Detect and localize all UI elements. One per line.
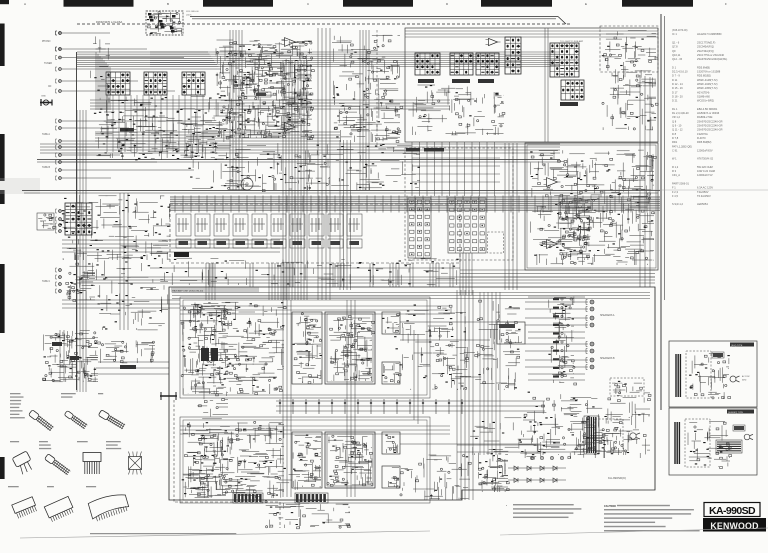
svg-text:2SC945A(P,Q): 2SC945A(P,Q) bbox=[697, 45, 714, 49]
svg-text:D 7,8: D 7,8 bbox=[672, 136, 679, 140]
volume control block bbox=[505, 37, 521, 74]
AC plug bbox=[630, 433, 636, 439]
input selector switch S1-1 bbox=[106, 72, 130, 95]
vertical bundle x360 bbox=[360, 30, 369, 190]
bias resistor rails bbox=[276, 401, 470, 411]
relay contact column bbox=[553, 305, 574, 382]
tone switch matrix 3 bbox=[476, 53, 499, 75]
svg-text:MAIN AMP UNIT (X08-1090-00): MAIN AMP UNIT (X08-1090-00) bbox=[172, 290, 203, 293]
sub sonic circuit bbox=[605, 49, 653, 129]
source direct matrix 1 bbox=[408, 198, 431, 258]
svg-text:(24V): (24V) bbox=[186, 15, 192, 17]
amp top horizontals bbox=[172, 293, 650, 299]
filter cell C2 bbox=[195, 214, 210, 236]
speaker terminals A bbox=[590, 300, 594, 327]
svg-text:KA-990SD(K): KA-990SD(K) bbox=[608, 476, 626, 480]
power rail horizontals 2 bbox=[470, 401, 545, 411]
op-amp IC1-2 bbox=[285, 123, 296, 132]
amp dashed left border bbox=[173, 400, 175, 502]
phono eq extra wiring bbox=[95, 113, 235, 161]
main amp label strip bbox=[171, 288, 259, 293]
board outline horizontal y161 bbox=[37, 159, 560, 161]
vertical trunk C bbox=[340, 140, 351, 290]
adaptor switch matrix bbox=[65, 203, 92, 235]
label uPC1225H bbox=[8, 486, 19, 487]
svg-text:S 9,R-1,2: S 9,R-1,2 bbox=[672, 202, 684, 206]
svg-text:RL 1: RL 1 bbox=[672, 107, 678, 111]
svg-text:VR 1,2: VR 1,2 bbox=[672, 115, 680, 119]
svg-text:F 1: F 1 bbox=[672, 186, 676, 190]
svg-text:Q 11 - 12: Q 11 - 12 bbox=[672, 128, 683, 132]
power circuit box SLK type bbox=[669, 341, 757, 407]
signal bus trunk right bbox=[150, 52, 560, 67]
left scan bar 2 bbox=[0, 134, 5, 181]
dense junction box (power switch detail) bbox=[146, 11, 183, 35]
svg-text:(SLB/JET) TYPE: (SLB/JET) TYPE bbox=[728, 412, 744, 414]
board outline horizontal y191 bbox=[22, 190, 660, 192]
inner amp long rails bbox=[180, 306, 450, 434]
svg-text:W02F-4148(T-72): W02F-4148(T-72) bbox=[697, 78, 718, 82]
package flat 2SA1349 bbox=[12, 451, 35, 475]
svg-text:RD5.6E(B2): RD5.6E(B2) bbox=[697, 74, 711, 78]
power supply dashed box bbox=[595, 419, 623, 451]
label 2SA1115 2SC2668 bbox=[61, 393, 76, 394]
drop bundles to amp bbox=[335, 263, 439, 287]
mid-left vertical bundle bbox=[120, 193, 128, 330]
svg-text:2SA970/2SC2240-GR: 2SA970/2SC2240-GR bbox=[697, 119, 723, 123]
svg-text:R 3: R 3 bbox=[672, 169, 677, 173]
SLB plug bbox=[744, 434, 750, 440]
speaker wires bbox=[525, 302, 588, 367]
filter cell C4 bbox=[233, 214, 248, 236]
label direct bbox=[452, 79, 470, 83]
filter cell C6 bbox=[271, 214, 286, 236]
speaker switch resistor row bbox=[106, 342, 137, 363]
svg-text:F: F bbox=[725, 2, 727, 6]
preamp board outline top edge bbox=[190, 17, 566, 25]
tape C jacks bbox=[59, 269, 62, 293]
svg-text:D 21: D 21 bbox=[672, 99, 678, 103]
svg-text:D 11: D 11 bbox=[672, 78, 678, 82]
svg-text:60Hz: 60Hz bbox=[742, 380, 746, 382]
power circuit box SLB type bbox=[669, 408, 757, 475]
filter drop pairs bbox=[210, 263, 453, 287]
svg-text:Q 8: Q 8 bbox=[672, 119, 677, 123]
SLK transformer bbox=[676, 354, 680, 397]
svg-text:RD5.6M(B2): RD5.6M(B2) bbox=[697, 140, 712, 144]
label TA7205 bbox=[47, 486, 54, 487]
amp nested borders R bbox=[180, 417, 430, 503]
SLB power switch bbox=[733, 425, 745, 431]
svg-text:1S2076A or 1S1588: 1S2076A or 1S1588 bbox=[697, 70, 721, 74]
page bottom faint line bbox=[20, 531, 430, 538]
svg-text:R 1,2: R 1,2 bbox=[672, 165, 679, 169]
svg-text:(SLK) TYPE: (SLK) TYPE bbox=[731, 345, 743, 347]
label loudness bbox=[560, 102, 578, 106]
svg-text:2SC1775A(E,F): 2SC1775A(E,F) bbox=[697, 41, 715, 45]
filter bus taps bbox=[175, 196, 647, 213]
package DIP top view bbox=[129, 452, 142, 475]
midband wiring bbox=[181, 143, 421, 190]
tone vertical pair bbox=[545, 28, 548, 142]
power supply vertical rails bbox=[457, 290, 473, 500]
protector relay box bbox=[497, 322, 525, 344]
svg-text:A: A bbox=[24, 2, 26, 6]
board outline left vertical bbox=[76, 52, 78, 390]
film registration bar 5 bbox=[622, 0, 693, 7]
svg-text:KA-990SD: KA-990SD bbox=[709, 505, 756, 517]
dashed boundary bbox=[376, 30, 378, 145]
adaptor jacks bbox=[59, 210, 62, 233]
left scan bar 5 bbox=[0, 457, 5, 479]
SLK power switch bbox=[712, 352, 724, 358]
tone op-amp bbox=[489, 38, 498, 45]
svg-text:2SC1775A or 2SC2240: 2SC1775A or 2SC2240 bbox=[697, 53, 725, 57]
protection circuit column bbox=[197, 305, 229, 487]
left scan bar 3 bbox=[0, 190, 5, 204]
model number box KA-990SD bbox=[704, 503, 760, 517]
parts list divider line bbox=[600, 189, 768, 191]
adaptor components bbox=[37, 213, 54, 230]
filter capacitor bank bbox=[485, 461, 487, 463]
KENWOOD logo box bbox=[703, 518, 766, 532]
label tone bbox=[478, 79, 494, 83]
label UPA68H bbox=[77, 441, 88, 442]
cd input jacks bbox=[59, 80, 62, 93]
svg-text:C91_A: C91_A bbox=[672, 173, 680, 177]
phones label bbox=[120, 365, 136, 369]
power transformer T1 bbox=[587, 417, 596, 453]
tape C switch cluster bbox=[80, 292, 82, 294]
R-channel driver module bbox=[325, 432, 375, 488]
svg-text:D 17: D 17 bbox=[672, 90, 678, 94]
mid-left extra wiring bbox=[60, 195, 170, 258]
svg-text:TO L-9062 TO SUB AMP: TO L-9062 TO SUB AMP bbox=[560, 40, 584, 43]
package module uPC1225H bbox=[12, 497, 38, 519]
tape B jacks bbox=[59, 154, 62, 180]
tone circuit clutter bbox=[456, 113, 459, 115]
flat amplifier board outline bbox=[525, 143, 658, 270]
filter cell C9 bbox=[328, 214, 343, 236]
label 2SA1349 bbox=[10, 441, 19, 442]
label TA2646 bbox=[86, 486, 96, 487]
wire dashed bus to power switch bbox=[77, 23, 570, 25]
svg-text:Q9: Q9 bbox=[672, 49, 676, 53]
bottom small text bbox=[90, 533, 236, 534]
phono input jacks bbox=[59, 32, 62, 51]
amp center vertical bundle bbox=[283, 300, 355, 497]
bottom center extra circuitry bbox=[269, 503, 350, 517]
package TO-92 2SB726 bbox=[98, 410, 125, 430]
phono equalizer amplifier section bbox=[217, 49, 312, 101]
filter cell C1 bbox=[176, 214, 191, 236]
svg-text:W 1: W 1 bbox=[672, 157, 677, 161]
film registration bar 1 bbox=[64, 0, 134, 7]
svg-text:Q7,8: Q7,8 bbox=[672, 45, 678, 49]
svg-text:RL 2,3,4,RL20: RL 2,3,4,RL20 bbox=[672, 111, 689, 115]
SLB dashed box bbox=[685, 419, 710, 467]
svg-text:PHONO: PHONO bbox=[42, 41, 51, 43]
ground post GND bbox=[40, 102, 52, 104]
svg-text:2SA733A(P,Q): 2SA733A(P,Q) bbox=[697, 49, 714, 53]
svg-text:2SA970/2SC2240(GR,BL): 2SA970/2SC2240(GR,BL) bbox=[697, 57, 727, 61]
signal bus horizontal group bbox=[77, 52, 219, 67]
dashed sub box top-right bbox=[600, 26, 658, 72]
svg-text:TAPE B: TAPE B bbox=[42, 166, 50, 169]
labels tone mode bbox=[406, 148, 420, 152]
vertical bundle x230 bbox=[230, 30, 242, 190]
svg-text:PAT-L1,2(B2-QE): PAT-L1,2(B2-QE) bbox=[672, 144, 692, 148]
rec out horizontal bundle bbox=[40, 144, 560, 153]
SLK dashed box bbox=[686, 351, 711, 398]
svg-text:E: E bbox=[585, 2, 587, 6]
vertical ladder tone to band bbox=[412, 142, 495, 196]
muting circuit section bbox=[358, 59, 378, 117]
svg-text:D 12 - 14: D 12 - 14 bbox=[672, 82, 683, 86]
main board outline right edge bbox=[660, 14, 662, 410]
amp nested borders L bbox=[180, 297, 430, 398]
label mode bbox=[418, 79, 434, 83]
svg-text:(X08-1070-00): (X08-1070-00) bbox=[672, 29, 688, 32]
svg-text:HZ-6(TD4): HZ-6(TD4) bbox=[697, 90, 710, 94]
svg-text:W02F-1046(T-72): W02F-1046(T-72) bbox=[697, 82, 718, 86]
vertical signal trunk center bbox=[283, 60, 307, 300]
recording selector label bbox=[120, 128, 134, 132]
svg-text:D 15 - 16: D 15 - 16 bbox=[672, 86, 683, 90]
svg-text:RD5.6M(B): RD5.6M(B) bbox=[697, 65, 710, 69]
R-channel input stage bbox=[191, 466, 281, 498]
svg-text:SPEAKERS B: SPEAKERS B bbox=[600, 357, 615, 360]
connector strip 2 bbox=[296, 494, 299, 502]
label RD5602F group bbox=[106, 441, 121, 442]
drop wires to main amp left bbox=[206, 263, 287, 300]
package TO-92 2SA1115 bbox=[64, 410, 88, 429]
IC label box bbox=[255, 92, 271, 97]
svg-text:GND: GND bbox=[41, 96, 46, 98]
L-channel driver module bbox=[325, 312, 375, 384]
svg-text:12000uF/71V: 12000uF/71V bbox=[697, 173, 713, 177]
R-channel output transistors bbox=[382, 432, 400, 454]
fuse row bbox=[530, 456, 563, 459]
source direct matrix 2 bbox=[448, 198, 486, 253]
svg-text:B: B bbox=[167, 2, 169, 6]
filter lower wiring bbox=[174, 259, 459, 284]
svg-text:AC 120V: AC 120V bbox=[742, 375, 750, 378]
L-channel input stage bbox=[214, 319, 266, 370]
SLK wiring bbox=[690, 375, 698, 388]
tape A jacks bbox=[59, 120, 62, 149]
svg-text:D 18 - 20: D 18 - 20 bbox=[672, 95, 683, 99]
op-amp IC1-1 bbox=[285, 38, 296, 47]
svg-text:CAUTION:: CAUTION: bbox=[604, 505, 616, 508]
svg-text:TUNER: TUNER bbox=[44, 63, 52, 65]
svg-text:SPEAKERS A: SPEAKERS A bbox=[600, 314, 615, 317]
svg-text:2SA970/2SC2240-GR: 2SA970/2SC2240-GR bbox=[697, 128, 723, 132]
amp feed horizontal bundle bbox=[77, 277, 655, 283]
input selector switch S1-2 bbox=[144, 72, 167, 95]
svg-text:2SA970/2SC2240-GR: 2SA970/2SC2240-GR bbox=[697, 124, 723, 128]
balance switch matrix bbox=[550, 43, 579, 77]
filter bus band bbox=[170, 196, 660, 211]
tone control board outline bbox=[405, 28, 658, 142]
tone filter network dashed box bbox=[170, 204, 460, 263]
tuner input jacks bbox=[59, 56, 62, 70]
svg-text:HG5097A or 30496: HG5097A or 30496 bbox=[697, 111, 720, 115]
left lower clutter bbox=[95, 240, 168, 329]
svg-text:HA12017 NJM4558D: HA12017 NJM4558D bbox=[697, 32, 722, 36]
left vertical rails bbox=[77, 110, 86, 392]
bottom amp wiring bbox=[193, 455, 300, 488]
package SIP-7 UPA68H bbox=[83, 453, 101, 475]
scan shadow left bbox=[0, 178, 40, 194]
film registration bar 3 bbox=[343, 0, 413, 7]
svg-text:FROM 9070 LJ GA/SA: FROM 9070 LJ GA/SA bbox=[96, 20, 123, 24]
R-channel voltage amp box bbox=[292, 432, 322, 488]
svg-text:RG869-2 50k: RG869-2 50k bbox=[697, 115, 713, 119]
loudness switch bbox=[561, 80, 584, 100]
amp mid-right clutter bbox=[465, 387, 467, 389]
L-channel voltage amp box bbox=[292, 312, 322, 384]
psu extra wiring bbox=[470, 418, 560, 455]
left scan bar 4 bbox=[0, 264, 5, 333]
svg-text:D 8: D 8 bbox=[672, 132, 677, 136]
svg-text:S1WB-A60: S1WB-A60 bbox=[697, 95, 710, 99]
svg-text:C 91: C 91 bbox=[672, 148, 678, 152]
connector strip 1 bbox=[234, 494, 236, 502]
amp input connector bbox=[160, 395, 177, 397]
selector wiring bbox=[98, 97, 215, 159]
amp right-bottom clutter bbox=[593, 439, 612, 441]
upper horizontal bundle 2 bbox=[95, 132, 340, 141]
rectifier diodes bbox=[514, 466, 518, 470]
long rail wires lower bbox=[60, 330, 64, 382]
package module TA7205 bbox=[44, 496, 75, 522]
svg-text:T4A/250V: T4A/250V bbox=[697, 190, 709, 194]
speaker terminals B bbox=[590, 342, 594, 369]
balance pot bbox=[241, 178, 253, 190]
tone switch matrix 2 bbox=[450, 53, 473, 75]
svg-text:R-4070: R-4070 bbox=[697, 136, 706, 140]
svg-text:PART-2006-01: PART-2006-01 bbox=[672, 182, 689, 186]
drop wires right bbox=[460, 253, 472, 295]
filter capacitors dark bbox=[201, 348, 209, 361]
svg-text:T6.3A/250V: T6.3A/250V bbox=[697, 194, 711, 198]
label 2SA712H group bbox=[10, 393, 21, 394]
svg-text:CD: CD bbox=[48, 86, 52, 88]
package TO-92 2SK129 bbox=[44, 454, 70, 476]
left scan bar 1 bbox=[0, 24, 5, 67]
flat amp op-amp 1 bbox=[547, 178, 558, 187]
svg-text:LED5054: LED5054 bbox=[697, 202, 708, 206]
svg-text:Q10,11: Q10,11 bbox=[672, 53, 681, 57]
power rail horizontals bbox=[457, 445, 585, 452]
main amp board outline bbox=[169, 287, 655, 500]
relay contact marks bbox=[553, 298, 559, 300]
filter cell C10 bbox=[347, 214, 362, 236]
svg-text:•: • bbox=[506, 504, 507, 508]
svg-text:1S2076A: 1S2076A bbox=[697, 132, 708, 136]
amp right vertical bundle bbox=[480, 292, 500, 455]
right mid horizontal bundle bbox=[460, 270, 655, 277]
filter cell C5 bbox=[252, 214, 267, 236]
svg-text:D 1: D 1 bbox=[672, 65, 677, 69]
svg-text:W02F-1056(T-72): W02F-1056(T-72) bbox=[697, 86, 718, 90]
svg-text:6.3A AC 125V: 6.3A AC 125V bbox=[697, 186, 713, 190]
svg-text:D 7 - 9: D 7 - 9 bbox=[672, 74, 680, 78]
svg-text:Q12 - 15: Q12 - 15 bbox=[672, 57, 683, 61]
svg-text:AT6730VK-02: AT6730VK-02 bbox=[697, 157, 714, 161]
label 2SK129 group bbox=[39, 441, 48, 442]
package module TA2646 bbox=[88, 492, 130, 523]
svg-text:TAPE A: TAPE A bbox=[42, 133, 50, 136]
preamp label bbox=[174, 252, 189, 257]
svg-text:F 2,3: F 2,3 bbox=[672, 190, 678, 194]
SLB transformer bbox=[675, 422, 679, 464]
svg-text:IC 1: IC 1 bbox=[672, 32, 677, 36]
flat amp op-amp 2 bbox=[547, 240, 558, 249]
flat amp circuitry bbox=[568, 165, 654, 254]
speaker switch cluster bbox=[52, 356, 69, 365]
upper-left horizontal bundle bbox=[90, 100, 450, 109]
source direct dashed box bbox=[405, 148, 513, 260]
svg-text:5W 220 OHM: 5W 220 OHM bbox=[697, 165, 713, 169]
mid-left horizontal bundle bbox=[62, 240, 280, 252]
svg-text:TAPE C: TAPE C bbox=[42, 280, 50, 283]
svg-text:D2,3,4,5,6,10: D2,3,4,5,6,10 bbox=[672, 70, 688, 74]
output wires bbox=[400, 321, 497, 323]
power supply wiring bbox=[577, 418, 631, 453]
flat amp dense IC block bbox=[560, 228, 562, 260]
svg-text:RD1: RD1 bbox=[672, 140, 678, 144]
selector drop wires bbox=[107, 95, 203, 152]
SLB voltage selector bbox=[716, 440, 742, 453]
svg-text:WO2G(+-BR2): WO2G(+-BR2) bbox=[697, 99, 714, 103]
film registration bar 4 bbox=[481, 0, 552, 7]
right side vertical bundle bbox=[640, 75, 650, 287]
vertical bundle x505 bbox=[505, 143, 517, 290]
L-channel output transistors bbox=[382, 312, 400, 334]
input selector switch S1-3 bbox=[182, 72, 205, 95]
SLB wiring bbox=[720, 457, 723, 459]
spk cord dashed box bbox=[610, 378, 644, 396]
film registration bar 2 bbox=[203, 0, 273, 7]
tone top horizontals bbox=[405, 31, 658, 37]
svg-text:EB2-4.5D MR301: EB2-4.5D MR301 bbox=[697, 107, 718, 111]
label 2SB726 bbox=[98, 393, 103, 394]
svg-text:X03-1080-00: X03-1080-00 bbox=[186, 11, 199, 13]
filter cell C7 bbox=[290, 214, 305, 236]
filter cell C8 bbox=[309, 214, 324, 236]
tone switch matrix 1 bbox=[415, 53, 440, 75]
corner mark bbox=[0, 0, 9, 4]
svg-text:12000uF/63V: 12000uF/63V bbox=[697, 148, 713, 152]
input wires to selector bus bbox=[62, 33, 221, 178]
svg-text:Q 9 - 10: Q 9 - 10 bbox=[672, 124, 682, 128]
svg-text:10W 0.22 OHM: 10W 0.22 OHM bbox=[697, 169, 715, 173]
vertical trunk B bbox=[318, 28, 330, 300]
small dashed box bbox=[488, 232, 504, 253]
package TO-92 2SA712H bbox=[28, 410, 54, 432]
filter cell C3 bbox=[214, 214, 229, 236]
svg-text:Q1 - 6: Q1 - 6 bbox=[672, 41, 680, 45]
svg-text:F 4,5: F 4,5 bbox=[672, 194, 678, 198]
SLK plug bbox=[730, 376, 736, 382]
headphone jack cluster bbox=[222, 322, 225, 324]
